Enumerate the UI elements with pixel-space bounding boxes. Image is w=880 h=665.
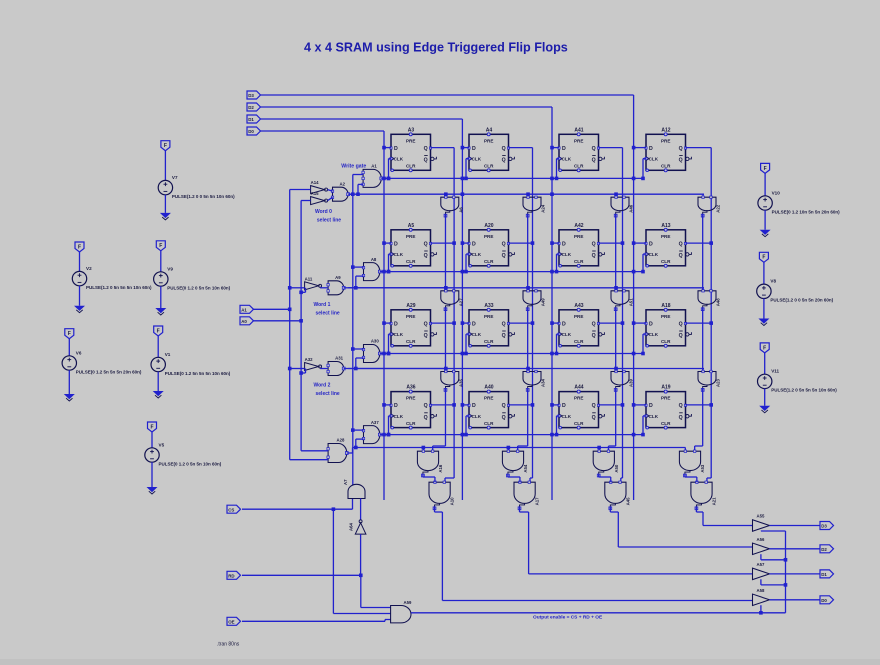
svg-text:A11: A11 [305,276,313,281]
svg-text:A28: A28 [337,438,345,443]
wire Q stub [599,242,623,244]
svg-text:Q: Q [679,415,683,421]
svg-text:A34: A34 [541,379,546,387]
wire CLK stub [466,415,469,417]
word 2 write line [381,353,643,355]
wire D stub [384,322,391,324]
D flip-flop A42 [558,223,605,267]
cluster link wire [422,474,424,477]
svg-text:Q: Q [502,158,506,164]
gate A50 [593,450,619,477]
ground [760,230,771,235]
svg-text:Q: Q [592,333,596,339]
svg-text:A48: A48 [716,298,721,306]
net flag F [156,241,165,251]
svg-text:A9: A9 [335,275,341,280]
word 3 read line [353,447,686,449]
svg-text:D3: D3 [248,93,254,98]
address line A0 vertical [300,201,302,451]
buffer A14 [311,180,328,194]
wire Q stub [599,147,623,149]
svg-text:D: D [649,241,653,247]
svg-text:CLR: CLR [574,164,584,169]
wire D stub [552,147,559,149]
wire D stub [552,242,559,244]
svg-text:A15: A15 [311,191,319,196]
D flip-flop A20 [468,223,515,267]
gate A54 [502,450,528,477]
buffer A11 [305,276,322,290]
wire D stub [384,147,391,149]
svg-text:Q: Q [502,321,506,327]
svg-text:V1: V1 [165,352,171,357]
svg-text:CLR: CLR [661,339,671,344]
word 0 write line [381,177,643,179]
chain wire [702,308,704,372]
gate A27 [441,290,464,311]
svg-text:PRE: PRE [574,234,583,239]
svg-text:D: D [394,321,398,327]
gate A21 [691,481,717,510]
gate A53 [679,450,705,477]
svg-text:F: F [164,143,167,149]
svg-text:select line: select line [316,391,340,397]
svg-text:CLK: CLK [562,252,572,257]
svg-text:CLR: CLR [574,259,584,264]
chain wire [527,214,529,291]
svg-text:PULSE(0 1.2 5n 5n 5n 20n 60n): PULSE(0 1.2 5n 5n 5n 20n 60n) [76,369,142,374]
wire Q stub [686,242,712,244]
wire CLK stub [557,253,560,255]
svg-text:Write gate: Write gate [341,164,366,170]
buffer A32 [305,357,322,371]
D flip-flop A12 [645,127,692,172]
svg-text:D3: D3 [821,524,827,529]
svg-text:A8: A8 [371,257,377,262]
wire Q stub [431,147,455,149]
wire D stub [462,242,469,244]
svg-text:CLR: CLR [484,339,494,344]
svg-text:CLK: CLK [649,157,659,162]
chain wire [527,389,529,447]
svg-text:A24: A24 [541,204,546,212]
svg-text:Q: Q [679,403,683,409]
svg-text:PRE: PRE [406,138,415,143]
svg-text:D: D [394,241,398,247]
gate A9 [327,275,345,295]
gate A45 [605,481,631,510]
wire D stub [384,404,391,406]
cluster link wire [598,474,600,477]
svg-text:D: D [472,146,476,152]
svg-text:Q: Q [592,403,596,409]
wire D stub [552,322,559,324]
voltage source V5 [145,422,222,494]
output column wire col1 [434,507,436,512]
ground [758,319,769,324]
voltage source V9 [154,241,231,315]
svg-text:CLR: CLR [484,259,494,264]
port flag OE [227,617,241,625]
gate A16 [417,450,443,477]
wire Q stub [686,147,712,149]
svg-text:CLR: CLR [406,421,416,426]
wire Q stub [509,242,533,244]
buffer A64 [349,520,366,534]
svg-text:A35: A35 [458,379,463,387]
svg-text:D: D [562,146,566,152]
svg-text:select line: select line [317,218,341,224]
svg-text:A2: A2 [340,181,346,186]
svg-text:PRE: PRE [574,396,583,401]
gate A17 [514,481,540,510]
svg-text:PRE: PRE [406,314,415,319]
D flip-flop A19 [645,385,692,430]
svg-text:A51: A51 [629,298,634,306]
svg-text:CLK: CLK [394,332,404,337]
svg-text:CLK: CLK [649,414,659,419]
svg-text:Q: Q [424,333,428,339]
svg-text:PULSE(1.2 0 0 5n 5n 20n 60n): PULSE(1.2 0 0 5n 5n 20n 60n) [770,298,833,303]
junction dots observed [461,192,465,196]
port flag CS [227,505,241,513]
wire CLK stub [557,333,560,335]
svg-text:PULSE(0 1.2 10n 5n 5n 20n 60n): PULSE(0 1.2 10n 5n 5n 20n 60n) [772,209,841,214]
svg-text:A1: A1 [371,164,377,169]
chain wire [702,214,704,291]
svg-text:V9: V9 [167,266,173,271]
svg-text:PULSE(0 1.2 0 5n 5n 10n 60n): PULSE(0 1.2 0 5n 5n 10n 60n) [159,461,222,466]
svg-text:D0: D0 [821,598,827,603]
svg-text:D1: D1 [821,572,827,577]
wiring [290,287,305,289]
CS vertical [332,509,334,613]
data bus D0 wire [261,130,385,132]
port flag A0 [240,317,254,325]
svg-text:F: F [157,328,160,334]
D flip-flop A36 [390,385,437,430]
svg-text:Q: Q [424,403,428,409]
ground [147,487,158,492]
port flag D0 [820,596,834,604]
wire A64-A7 [360,499,362,521]
svg-text:PRE: PRE [574,138,583,143]
port flag D2 [247,103,261,111]
svg-text:A31: A31 [335,356,343,361]
svg-text:OE: OE [228,620,234,625]
wire RD [242,574,361,576]
port flag D1 [820,570,834,578]
word3 wiring [290,459,328,461]
svg-text:D1: D1 [248,117,254,122]
svg-text:D: D [649,146,653,152]
voltage source V11 [758,343,838,413]
svg-text:PULSE(1.2 0 0 5n 5n 10n 60n): PULSE(1.2 0 0 5n 5n 10n 60n) [172,194,235,199]
word 1 write line [381,271,643,273]
svg-text:CLK: CLK [472,252,482,257]
svg-text:Q: Q [679,146,683,152]
wire Q stub [431,322,455,324]
svg-text:A16: A16 [438,464,443,472]
svg-text:A22: A22 [716,204,721,212]
wire D stub [634,404,646,406]
ground [153,391,164,396]
svg-text:D: D [394,403,398,409]
svg-text:A1: A1 [241,308,247,313]
chain wire [615,389,617,447]
svg-text:D: D [562,241,566,247]
tri-state buffer A55 [753,514,770,532]
wire Q stub [431,242,455,244]
svg-text:A32: A32 [305,357,313,362]
svg-text:CLR: CLR [406,164,416,169]
svg-text:PRE: PRE [406,396,415,401]
svg-text:Word 2: Word 2 [314,383,331,389]
wire CLK stub [389,415,392,417]
wire CLK stub [466,253,469,255]
svg-text:V2: V2 [86,266,92,271]
wire out [769,525,820,527]
svg-text:A39: A39 [629,379,634,387]
Q column col3 [622,148,624,478]
chain wire [702,389,704,447]
svg-text:A54: A54 [523,464,528,472]
enable stub [760,605,762,613]
svg-text:CLR: CLR [661,164,671,169]
D flip-flop A18 [645,303,692,348]
svg-text:V7: V7 [172,175,178,180]
voltage source V1 [151,326,231,398]
wire D stub [462,147,469,149]
svg-text:CLR: CLR [406,259,416,264]
svg-text:D: D [562,321,566,327]
chain wire [615,214,617,291]
svg-text:A23: A23 [716,379,721,387]
svg-text:Q: Q [424,415,428,421]
svg-text:Q: Q [502,415,506,421]
svg-text:CLR: CLR [406,339,416,344]
wire [254,320,302,322]
svg-text:Q: Q [424,321,428,327]
ground [155,308,166,313]
port flag D3 [247,91,261,99]
output column wire col2 [519,507,521,512]
svg-text:A59: A59 [404,600,412,605]
gate A39 [611,370,634,391]
svg-text:Q: Q [502,241,506,247]
svg-text:Q: Q [679,158,683,164]
svg-text:PULSE(0 1.2 0 5n 5n 10n 60n): PULSE(0 1.2 0 5n 5n 10n 60n) [167,285,230,290]
Q column col4 [710,148,712,478]
svg-text:A53: A53 [700,464,705,472]
wire out [769,548,820,550]
gate A22 [698,196,721,217]
svg-text:V5: V5 [159,442,165,447]
net flag F [760,343,769,353]
enable rail [785,531,787,613]
svg-text:Q: Q [592,253,596,259]
svg-text:A0: A0 [241,319,247,324]
wire out [769,599,820,601]
svg-text:Word 1: Word 1 [314,302,331,308]
cluster link wire [507,474,509,477]
svg-text:Word 0: Word 0 [315,209,332,215]
net flag F [75,242,84,252]
svg-text:Q: Q [679,321,683,327]
svg-text:select line: select line [316,310,340,316]
svg-text:D: D [472,321,476,327]
svg-text:A64: A64 [349,523,354,531]
chain wire [444,214,446,291]
output column wire col4 [695,507,697,512]
buffer A15 [311,191,328,205]
svg-text:PRE: PRE [484,234,493,239]
Q column col2 [532,148,534,478]
wire D stub [634,322,646,324]
svg-text:Q: Q [592,158,596,164]
D flip-flop A13 [645,223,692,267]
D flip-flop A3 [390,127,437,172]
svg-text:CLR: CLR [484,421,494,426]
svg-text:A14: A14 [311,180,319,185]
D flip-flop A41 [558,127,605,172]
wire Q stub [686,404,712,406]
net flag F [154,326,163,336]
Q column col1 [453,148,455,478]
svg-text:D2: D2 [248,105,254,110]
svg-text:PRE: PRE [574,314,583,319]
tri-state buffer A58 [753,588,770,606]
wire CLK stub [466,158,469,160]
svg-text:CLR: CLR [484,164,494,169]
tri-state buffer A56 [753,537,770,555]
wire Q stub [509,147,533,149]
wire CLK stub [557,415,560,417]
ground [64,394,75,399]
svg-text:Q: Q [592,321,596,327]
svg-text:D0: D0 [248,129,254,134]
svg-text:Q: Q [424,241,428,247]
port flag D1 [247,115,261,123]
net flag F [161,141,170,151]
svg-text:CLK: CLK [649,332,659,337]
ground [74,306,85,311]
cluster link wire [684,474,686,477]
svg-text:CLK: CLK [472,332,482,337]
wire Q stub [599,322,623,324]
svg-text:CLR: CLR [574,421,584,426]
wire D stub [634,147,646,149]
svg-text:A6: A6 [458,207,463,213]
svg-text:PULSE(1.2 0 5n 5n 5n 10n 60n): PULSE(1.2 0 5n 5n 5n 10n 60n) [86,285,152,290]
svg-text:A30: A30 [371,339,379,344]
svg-text:Q: Q [424,146,428,152]
word0 wiring [290,189,311,191]
D flip-flop A40 [468,385,515,430]
svg-text:A56: A56 [757,537,765,542]
wire D stub [384,242,391,244]
wire [254,308,290,310]
svg-text:PRE: PRE [484,396,493,401]
gate A46 [611,196,634,217]
svg-text:A10: A10 [450,497,455,505]
gate A7 write-enable [343,479,365,499]
svg-text:CLR: CLR [661,421,671,426]
tri-state buffer A57 [753,562,770,580]
svg-text:4 x 4 SRAM using Edge Triggere: 4 x 4 SRAM using Edge Triggered Flip Flo… [304,41,568,55]
svg-text:F: F [763,345,766,351]
svg-text:CLK: CLK [394,252,404,257]
net flag F [148,422,157,432]
svg-text:Q: Q [592,415,596,421]
svg-text:RD: RD [228,574,234,579]
wire CLK stub [557,158,560,160]
wire Q stub [686,322,712,324]
svg-text:F: F [159,243,162,249]
chain wire [444,389,446,447]
net flag F [761,163,770,173]
enable stub [760,554,762,560]
gate A37 [362,420,381,444]
voltage source V2 [72,242,152,313]
svg-text:D2: D2 [821,547,827,552]
svg-text:D: D [472,241,476,247]
gate A2 [331,181,349,201]
word 1 read line [348,287,704,289]
gate A8 [362,257,381,281]
net flag F [65,329,74,339]
word 2 read line [348,368,704,370]
svg-text:CLK: CLK [562,414,572,419]
svg-text:Q: Q [502,403,506,409]
svg-text:Q: Q [502,253,506,259]
wire Q stub [431,404,455,406]
svg-text:.tran 80ns: .tran 80ns [217,642,240,648]
svg-text:A55: A55 [757,514,765,519]
port flag RD [227,571,241,579]
gate A1 [362,164,383,188]
gate A35 [441,370,464,391]
enable stub [760,579,762,585]
address line A1 vertical [289,190,291,460]
wire CLK stub [643,253,646,255]
D flip-flop A33 [468,303,515,348]
svg-text:V6: V6 [76,350,82,355]
chain wire [615,308,617,372]
gate A6 [441,196,464,217]
svg-text:A37: A37 [371,420,379,425]
svg-text:D: D [649,403,653,409]
chain wire [527,308,529,372]
svg-text:A27: A27 [458,298,463,306]
ground [759,406,770,411]
gate A30 [362,339,381,363]
enable stub [760,530,762,532]
svg-text:F: F [150,424,153,430]
output column wire col3 [609,507,611,512]
voltage source V6 [62,329,142,401]
svg-text:V10: V10 [772,190,781,195]
data bus D1 wire [261,118,463,120]
svg-text:PRE: PRE [661,314,670,319]
svg-text:PULSE(0 1.2 5n 5n 5n 10n 60n): PULSE(0 1.2 5n 5n 5n 10n 60n) [165,371,231,376]
gate A51 [611,290,634,311]
svg-text:D: D [562,403,566,409]
wire CLK stub [643,158,646,160]
svg-text:V11: V11 [771,369,779,374]
gate A59 output enable [391,600,412,623]
port flag D2 [820,545,834,553]
